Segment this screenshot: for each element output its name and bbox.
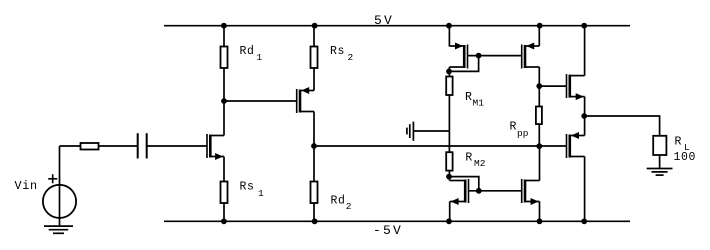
junction M5/rail [446,218,452,224]
transistor M4 source arrow [526,43,534,50]
svg-text:1: 1 [258,188,264,199]
voltage source Vin circle [43,185,76,218]
junction M5 gate [476,188,482,194]
resistor Rd1 [221,47,228,69]
wire M5 drain stub [448,177,450,181]
transistor M4 gate bar [521,45,523,69]
transistor M2 gate bar [296,89,298,113]
transistor M7 gate bar [566,74,568,98]
ground tap wire [413,130,449,132]
transistor M4 source lead [525,66,539,68]
junction M2 drain node [311,143,317,149]
svg-text:Rs: Rs [240,181,255,194]
svg-text:R: R [675,136,683,149]
wire M8 source to output node [584,116,586,136]
junction M8/rail [581,218,587,224]
svg-text:5V: 5V [374,13,394,28]
resistor RL [653,136,666,155]
svg-text:2: 2 [346,201,352,212]
transistor M1 gate bar [206,134,208,158]
transistor M1 drain lead [210,135,224,137]
wire M1 source to Rs1 [223,157,225,182]
resistor RM2 [446,152,452,170]
resistor RM1 [446,77,452,96]
junction rail/Rs2 [312,23,318,29]
wire rail to Rd1 [223,26,225,47]
wire M7 drain to rail [584,26,586,76]
svg-text:Rd: Rd [240,45,255,58]
transistor M5 bottom lead [450,201,466,203]
wire M5 gate to M6 gate [469,190,522,192]
ground under RL [647,169,673,176]
svg-text:M1: M1 [473,98,485,109]
junction Rs1/rail [221,218,227,224]
wire M6 source to rail [539,202,541,222]
transistor M1 source lead [210,156,224,158]
junction Rd2/rail [312,218,318,224]
wire RM1 to RM2 [448,95,450,152]
wire mid node to Rd2 [313,146,315,182]
junction M3 gate [476,53,482,59]
transistor M7 channel bar [568,75,571,98]
junction M6/rail [537,218,543,224]
wire M8 drain to rail [584,157,586,222]
junction M3 drain [446,69,452,75]
svg-text:R: R [510,121,518,134]
wire Rs1 to rail [223,203,225,221]
capacitor C1 [138,133,147,158]
svg-text:R: R [465,91,473,104]
wire rail to M3 source [448,26,450,47]
junction rail/Rd1 [221,23,227,29]
transistor M8 source lead [570,156,585,158]
transistor M2 drain lead [300,90,314,92]
junction M1 drain node [221,98,227,104]
transistor M2 source lead [300,111,314,113]
+5V rail [164,25,630,27]
resistor Rs2 [311,47,318,69]
transistor M3 gate bar [467,45,469,69]
wire Rpp to bias node [538,124,540,146]
ground under Vin [44,226,73,233]
svg-text:1: 1 [257,52,263,63]
wire M7 source to output node [584,97,586,116]
junction rail/M3 [446,23,452,29]
svg-text:Rs: Rs [330,45,345,58]
transistor M1 source arrow [215,153,223,160]
wire M4 drain down [538,67,540,86]
wire M2 drain to mid node [313,112,315,147]
wire rail to Rs2 [313,26,315,47]
wire RL to ground [659,155,661,169]
junction rail/M7 [581,23,587,29]
transistor M3 source arrow [455,43,463,50]
wire M1 drain to Rd1 [223,68,225,136]
transistor M3 top lead [449,45,464,47]
transistor M4 drain lead [525,45,539,47]
svg-text:M2: M2 [474,158,486,169]
transistor M7 source lead [570,96,585,98]
transistor M6 gate bar [521,179,523,203]
wire M2 drain to bias node [314,145,539,147]
svg-text:2: 2 [348,52,354,63]
transistor M7 drain lead [570,75,585,77]
svg-text:100: 100 [674,151,697,164]
junction M4 drain node [536,83,542,89]
transistor M4 channel bar [524,45,527,68]
transistor M3 bottom lead [449,66,464,68]
transistor M2 channel bar [299,90,302,113]
transistor M3 channel bar [463,45,466,68]
wire M6 drain to bias node [539,146,541,180]
wire capacitor to M1 gate [147,145,207,147]
transistor M6 source lead [525,201,540,203]
junction bias node [536,143,542,149]
wire M4 drain to Rpp [538,86,540,106]
svg-text:R: R [465,152,473,165]
wire source to input resistor [60,145,81,147]
wire M3 diode connection [449,56,479,72]
resistor Rpp [536,107,542,125]
wire output node to RL [584,116,659,136]
wire bias node to M8 gate [539,145,566,147]
transistor M8 gate bar [566,134,568,158]
junction rail/M4 [537,23,543,29]
transistor M8 drain lead [570,135,585,137]
transistor M5 top lead [450,180,466,182]
transistor M6 drain lead [525,180,540,182]
wire M1 drain to M2 gate [224,100,297,102]
wire Rs2 to M2 source [313,68,315,91]
-5V rail [164,220,630,222]
resistor Rd2 [311,182,318,204]
wire M5 source to rail [449,202,451,222]
resistor Rs1 [221,182,228,204]
transistor M8 channel bar [568,135,571,158]
wire Rd2 to rail [313,203,315,221]
wire M3 drain to RM1 node [448,67,450,77]
transistor M1 channel bar [209,135,212,158]
source polarity plus sign [48,174,57,183]
transistor M5 channel bar [464,180,467,203]
junction M5 drain [446,174,452,180]
wire M4 source to rail [538,26,540,46]
transistor M8 source arrow [571,132,579,139]
ground symbol sideways [407,122,414,141]
wire M4 drain node to M7 gate [539,85,566,87]
input resistor [81,143,99,150]
transistor M5 gate bar [468,179,470,203]
transistor M2 source arrow [301,87,309,94]
junction output node [581,113,587,119]
wire M3 gate to M4 gate [468,55,522,57]
svg-text:pp: pp [517,128,529,139]
wire input resistor to capacitor [99,145,138,147]
svg-text:-5V: -5V [373,223,403,238]
transistor M6 source arrow [531,198,539,205]
transistor M5 source arrow [451,198,459,205]
svg-text:Vin: Vin [15,179,38,193]
transistor M6 channel bar [524,180,527,203]
svg-text:Rd: Rd [331,194,346,207]
transistor M7 source arrow [576,93,584,100]
wire RM2 to M5 node [448,171,450,177]
wire Vin vertical [59,146,61,226]
wire M5 diode connection [449,177,479,191]
